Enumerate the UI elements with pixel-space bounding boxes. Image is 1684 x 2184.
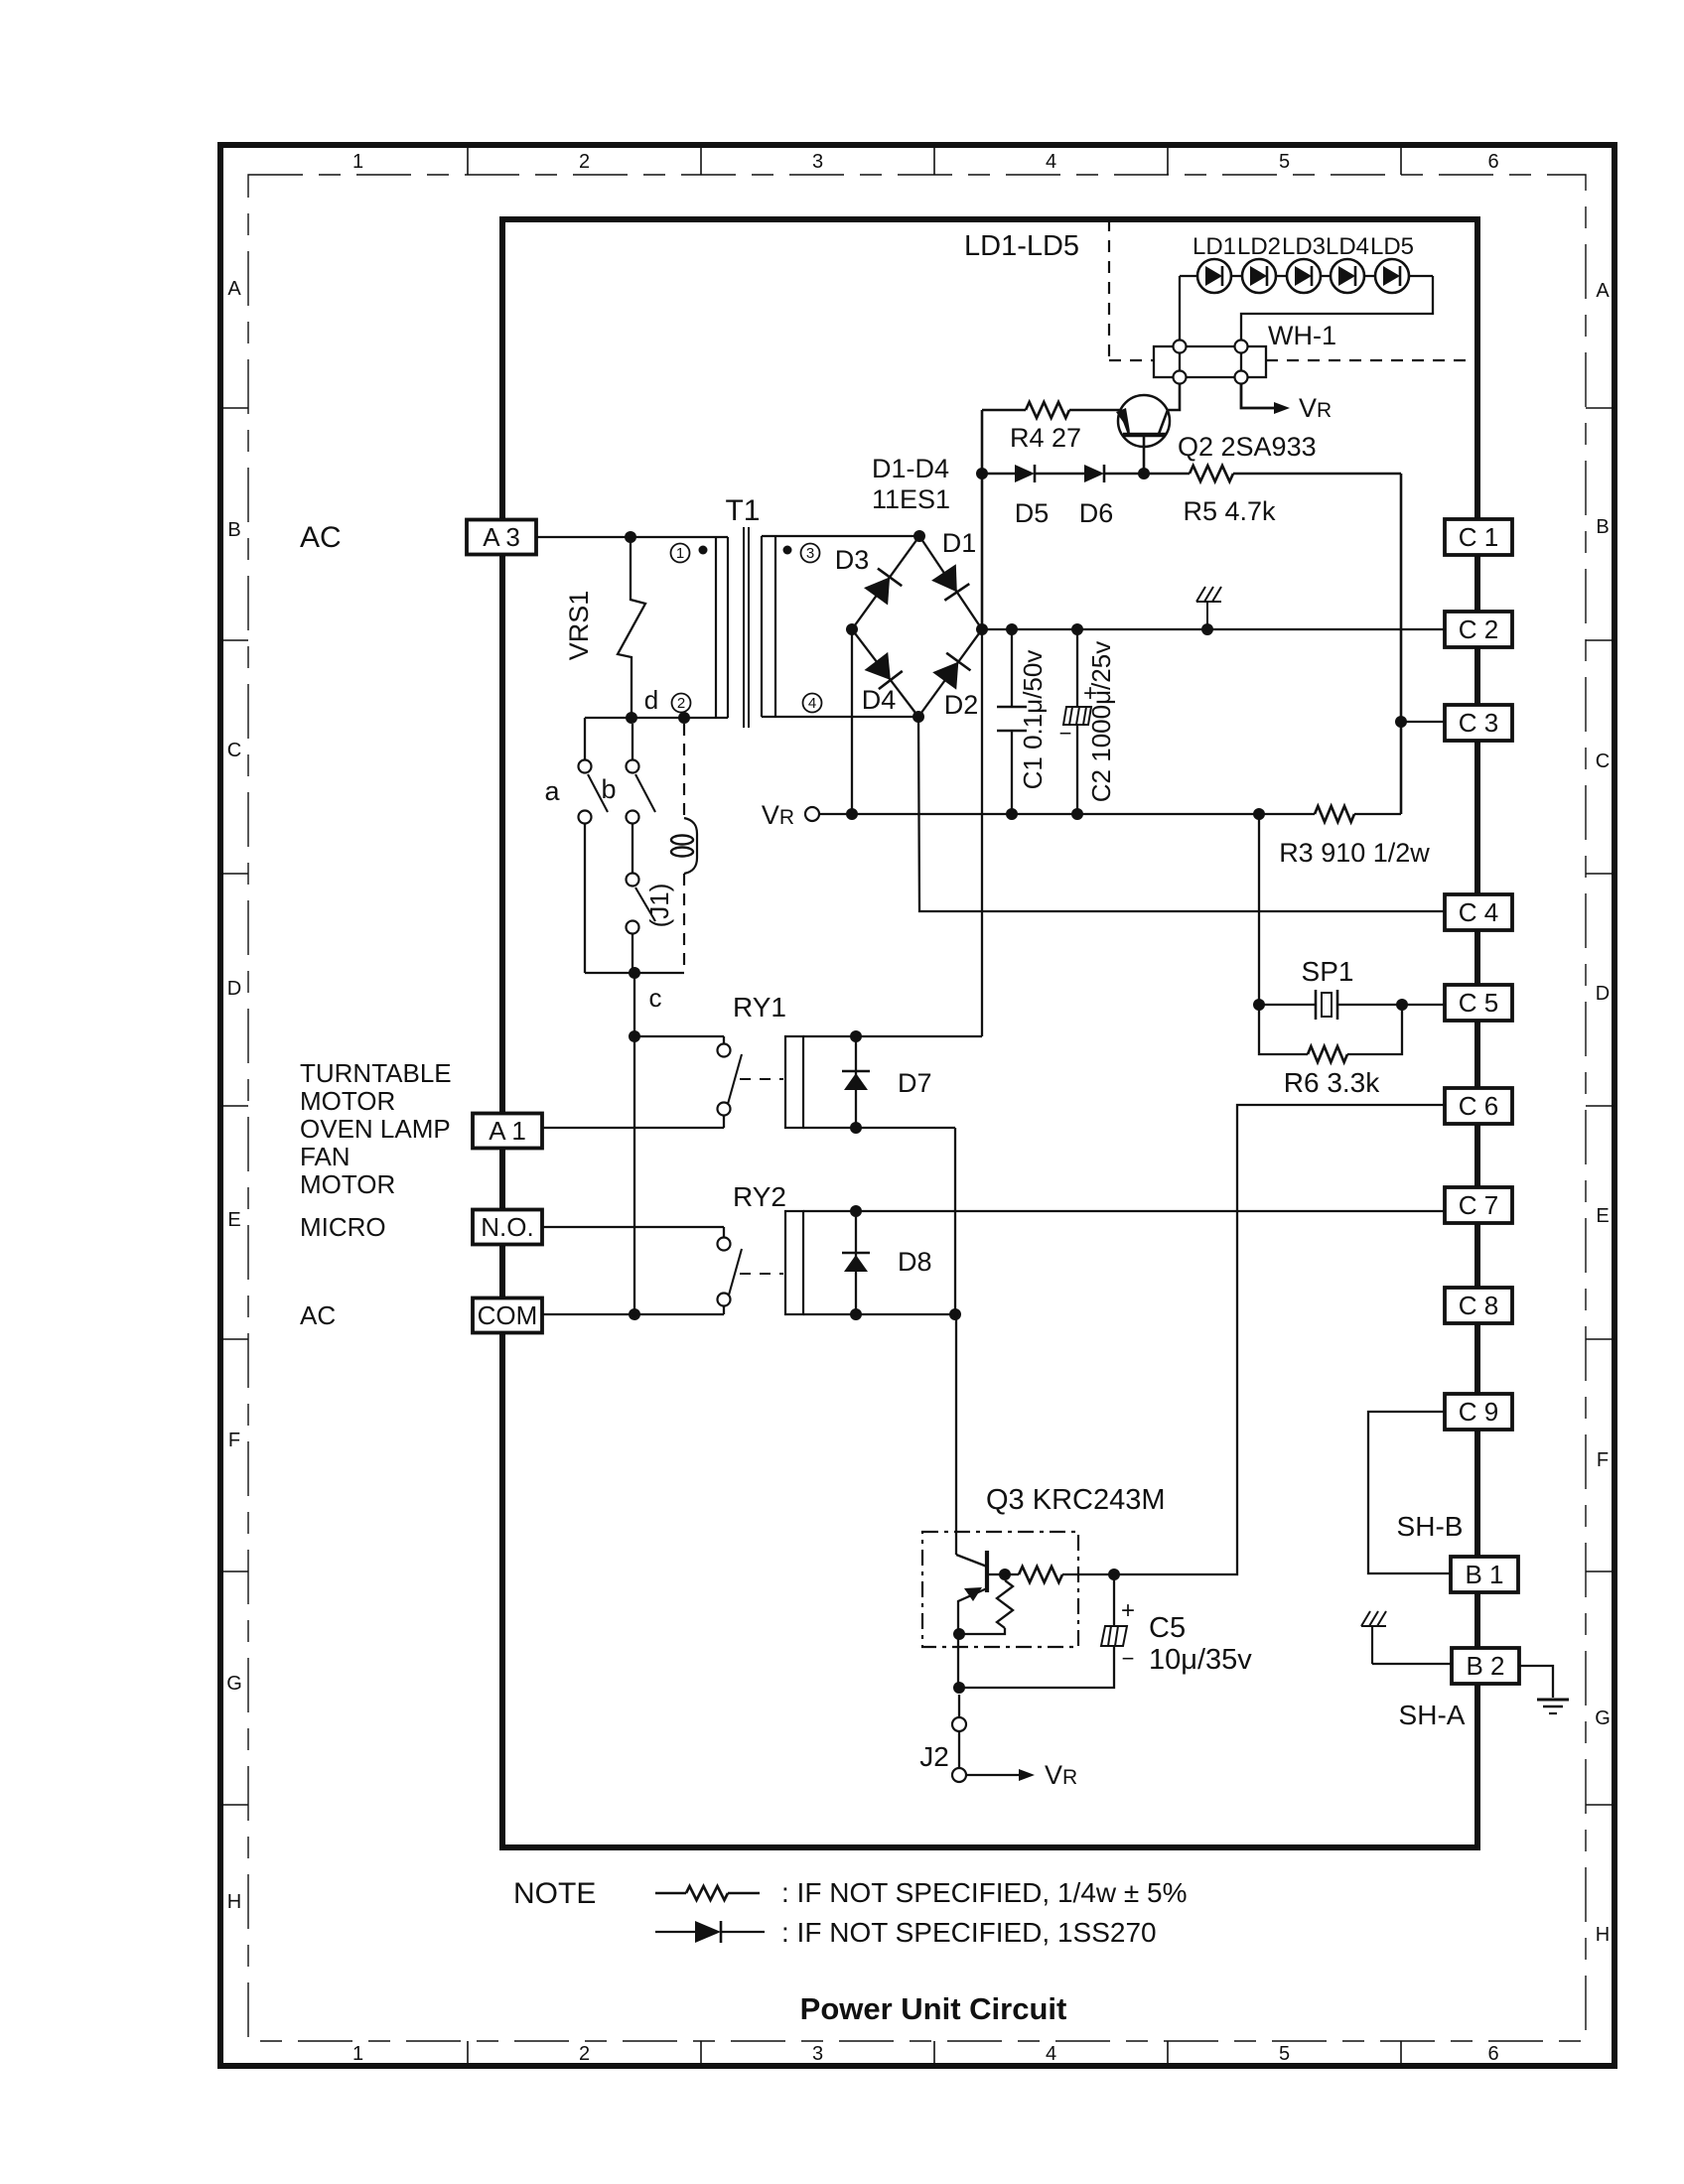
svg-text:C 1: C 1 (1459, 522, 1498, 552)
svg-text:4: 4 (1046, 2043, 1056, 2065)
svg-text:N.O.: N.O. (481, 1212, 533, 1242)
svg-text:1: 1 (352, 2043, 363, 2065)
svg-text:RY2: RY2 (733, 1181, 786, 1212)
svg-text:B 1: B 1 (1465, 1560, 1503, 1589)
svg-text:C 4: C 4 (1459, 897, 1498, 927)
svg-text:6: 6 (1487, 2043, 1498, 2065)
svg-text:5: 5 (1279, 2043, 1290, 2065)
svg-text:D: D (227, 978, 241, 1000)
svg-text:LD5: LD5 (1370, 233, 1414, 260)
svg-text:LD3: LD3 (1282, 233, 1326, 260)
svg-text:d: d (644, 685, 658, 715)
svg-text:4: 4 (808, 695, 816, 712)
svg-text:LD1: LD1 (1193, 233, 1236, 260)
svg-text:MICRO: MICRO (300, 1212, 386, 1242)
svg-text:D2: D2 (944, 690, 979, 720)
svg-text:B: B (227, 519, 240, 541)
svg-text:+: + (1121, 1597, 1135, 1624)
svg-text:2: 2 (677, 695, 685, 712)
svg-text:D1-D4: D1-D4 (872, 454, 949, 483)
svg-text:Power Unit Circuit: Power Unit Circuit (800, 1991, 1067, 2026)
svg-text:R4 27: R4 27 (1010, 423, 1081, 453)
svg-text:MOTOR: MOTOR (300, 1169, 395, 1199)
svg-text:LD2: LD2 (1237, 233, 1281, 260)
svg-text:A: A (227, 278, 241, 300)
svg-text:C 9: C 9 (1459, 1397, 1498, 1427)
svg-text:C: C (1596, 751, 1610, 772)
svg-text:C 2: C 2 (1459, 614, 1498, 644)
svg-text:−: − (1122, 1646, 1135, 1671)
svg-text:H: H (1596, 1924, 1610, 1946)
svg-text:J2: J2 (919, 1741, 949, 1772)
svg-text:6: 6 (1487, 151, 1498, 173)
svg-text:E: E (227, 1209, 240, 1231)
svg-text:3: 3 (806, 545, 814, 562)
svg-text:Q2 2SA933: Q2 2SA933 (1178, 432, 1317, 462)
svg-text:F: F (228, 1430, 240, 1451)
svg-text:C 7: C 7 (1459, 1190, 1498, 1220)
svg-text:D5: D5 (1015, 498, 1050, 528)
svg-text:R6 3.3k: R6 3.3k (1284, 1067, 1380, 1098)
svg-text:B: B (1596, 516, 1609, 538)
svg-text:OVEN LAMP: OVEN LAMP (300, 1114, 451, 1144)
svg-text:−: − (1059, 721, 1072, 746)
svg-text:: IF NOT SPECIFIED, 1SS270: : IF NOT SPECIFIED, 1SS270 (781, 1917, 1157, 1948)
svg-text:G: G (1595, 1707, 1611, 1729)
svg-text:11ES1: 11ES1 (872, 484, 950, 514)
svg-text:C5: C5 (1149, 1612, 1186, 1644)
svg-text:3: 3 (812, 151, 823, 173)
svg-text:AC: AC (300, 1300, 336, 1330)
svg-text:H: H (227, 1891, 241, 1913)
svg-text:: IF NOT SPECIFIED, 1/4w ± 5%: : IF NOT SPECIFIED, 1/4w ± 5% (781, 1877, 1188, 1908)
svg-text:D3: D3 (835, 545, 870, 575)
svg-text:R3 910 1/2w: R3 910 1/2w (1279, 838, 1430, 868)
svg-text:R5 4.7k: R5 4.7k (1183, 496, 1276, 526)
svg-text:VRS1: VRS1 (564, 591, 594, 661)
svg-text:RY1: RY1 (733, 992, 786, 1023)
svg-text:D1: D1 (942, 528, 977, 558)
svg-text:TURNTABLE: TURNTABLE (300, 1058, 452, 1088)
svg-text:D6: D6 (1079, 498, 1114, 528)
svg-text:SP1: SP1 (1302, 956, 1354, 987)
svg-text:4: 4 (1046, 151, 1056, 173)
svg-text:5: 5 (1279, 151, 1290, 173)
svg-text:LD4: LD4 (1326, 233, 1369, 260)
svg-text:AC: AC (300, 521, 342, 554)
svg-text:LD1-LD5: LD1-LD5 (964, 230, 1079, 262)
svg-text:10μ/35v: 10μ/35v (1149, 1644, 1252, 1676)
svg-text:(J1): (J1) (644, 884, 674, 928)
svg-text:1: 1 (352, 151, 363, 173)
svg-text:b: b (601, 774, 616, 804)
svg-text:C: C (227, 740, 241, 761)
svg-text:SH-B: SH-B (1397, 1511, 1464, 1542)
svg-text:1: 1 (676, 545, 684, 562)
svg-text:MOTOR: MOTOR (300, 1086, 395, 1116)
svg-text:E: E (1596, 1205, 1609, 1227)
svg-text:D7: D7 (898, 1068, 932, 1098)
svg-text:A 3: A 3 (483, 522, 520, 552)
svg-text:D4: D4 (862, 685, 897, 715)
svg-text:FAN: FAN (300, 1142, 351, 1171)
svg-text:c: c (649, 983, 662, 1013)
svg-text:3: 3 (812, 2043, 823, 2065)
svg-text:2: 2 (579, 151, 590, 173)
svg-text:SH-A: SH-A (1399, 1700, 1466, 1730)
svg-text:D8: D8 (898, 1247, 932, 1277)
svg-text:C 6: C 6 (1459, 1091, 1498, 1121)
svg-text:F: F (1597, 1449, 1609, 1471)
svg-text:2: 2 (579, 2043, 590, 2065)
svg-text:T1: T1 (725, 494, 760, 527)
svg-text:A 1: A 1 (489, 1116, 526, 1146)
svg-text:B 2: B 2 (1466, 1651, 1504, 1681)
svg-text:A: A (1596, 280, 1610, 302)
svg-text:a: a (544, 776, 560, 806)
svg-text:WH-1: WH-1 (1268, 321, 1336, 350)
svg-text:C 5: C 5 (1459, 988, 1498, 1018)
svg-text:D: D (1596, 983, 1610, 1005)
svg-text:Q3 KRC243M: Q3 KRC243M (986, 1484, 1166, 1516)
svg-text:C2 1000μ/25v: C2 1000μ/25v (1086, 641, 1116, 802)
svg-text:NOTE: NOTE (513, 1877, 596, 1910)
svg-text:C 8: C 8 (1459, 1291, 1498, 1320)
svg-text:C 3: C 3 (1459, 708, 1498, 738)
svg-text:C1 0.1μ/50v: C1 0.1μ/50v (1018, 650, 1048, 790)
svg-text:COM: COM (478, 1300, 538, 1330)
svg-text:G: G (226, 1673, 242, 1695)
